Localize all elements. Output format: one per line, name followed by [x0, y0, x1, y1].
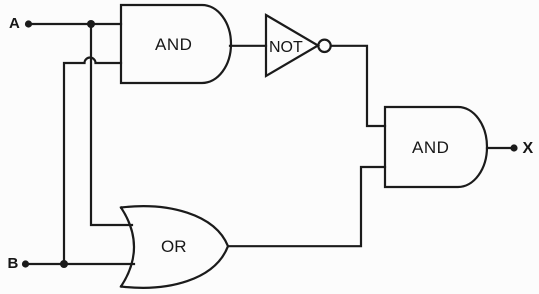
NOT gate U2 triangle [266, 15, 318, 76]
junction A [87, 20, 95, 28]
wire B branch up to AND U1 lower input with hop over A wire [64, 58, 121, 264]
OR gate U3 [121, 206, 228, 288]
wire NOT output to AND U4 upper input [331, 46, 385, 126]
svg-text:B: B [8, 255, 19, 272]
wire AND U1 output to NOT input [230, 45, 266, 47]
wire A branch down to OR top input [91, 24, 132, 225]
AND gate U4 [385, 107, 487, 187]
wire B input to OR bottom input [26, 263, 135, 265]
output terminal dot X [510, 144, 517, 151]
svg-text:A: A [9, 15, 20, 32]
NOT inversion bubble [318, 40, 330, 52]
wire OR output to AND U4 lower input [228, 167, 385, 246]
AND gate U1 [121, 5, 231, 83]
wire A input to AND U1 upper input [29, 23, 122, 25]
svg-text:OR: OR [161, 237, 187, 256]
input terminal dot A [25, 20, 32, 27]
svg-text:AND: AND [412, 138, 449, 157]
svg-text:X: X [523, 140, 534, 157]
input terminal dot B [22, 260, 29, 267]
svg-text:NOT: NOT [269, 39, 303, 56]
wire AND U4 output [487, 147, 512, 149]
svg-text:AND: AND [155, 35, 192, 54]
junction B [60, 260, 68, 268]
